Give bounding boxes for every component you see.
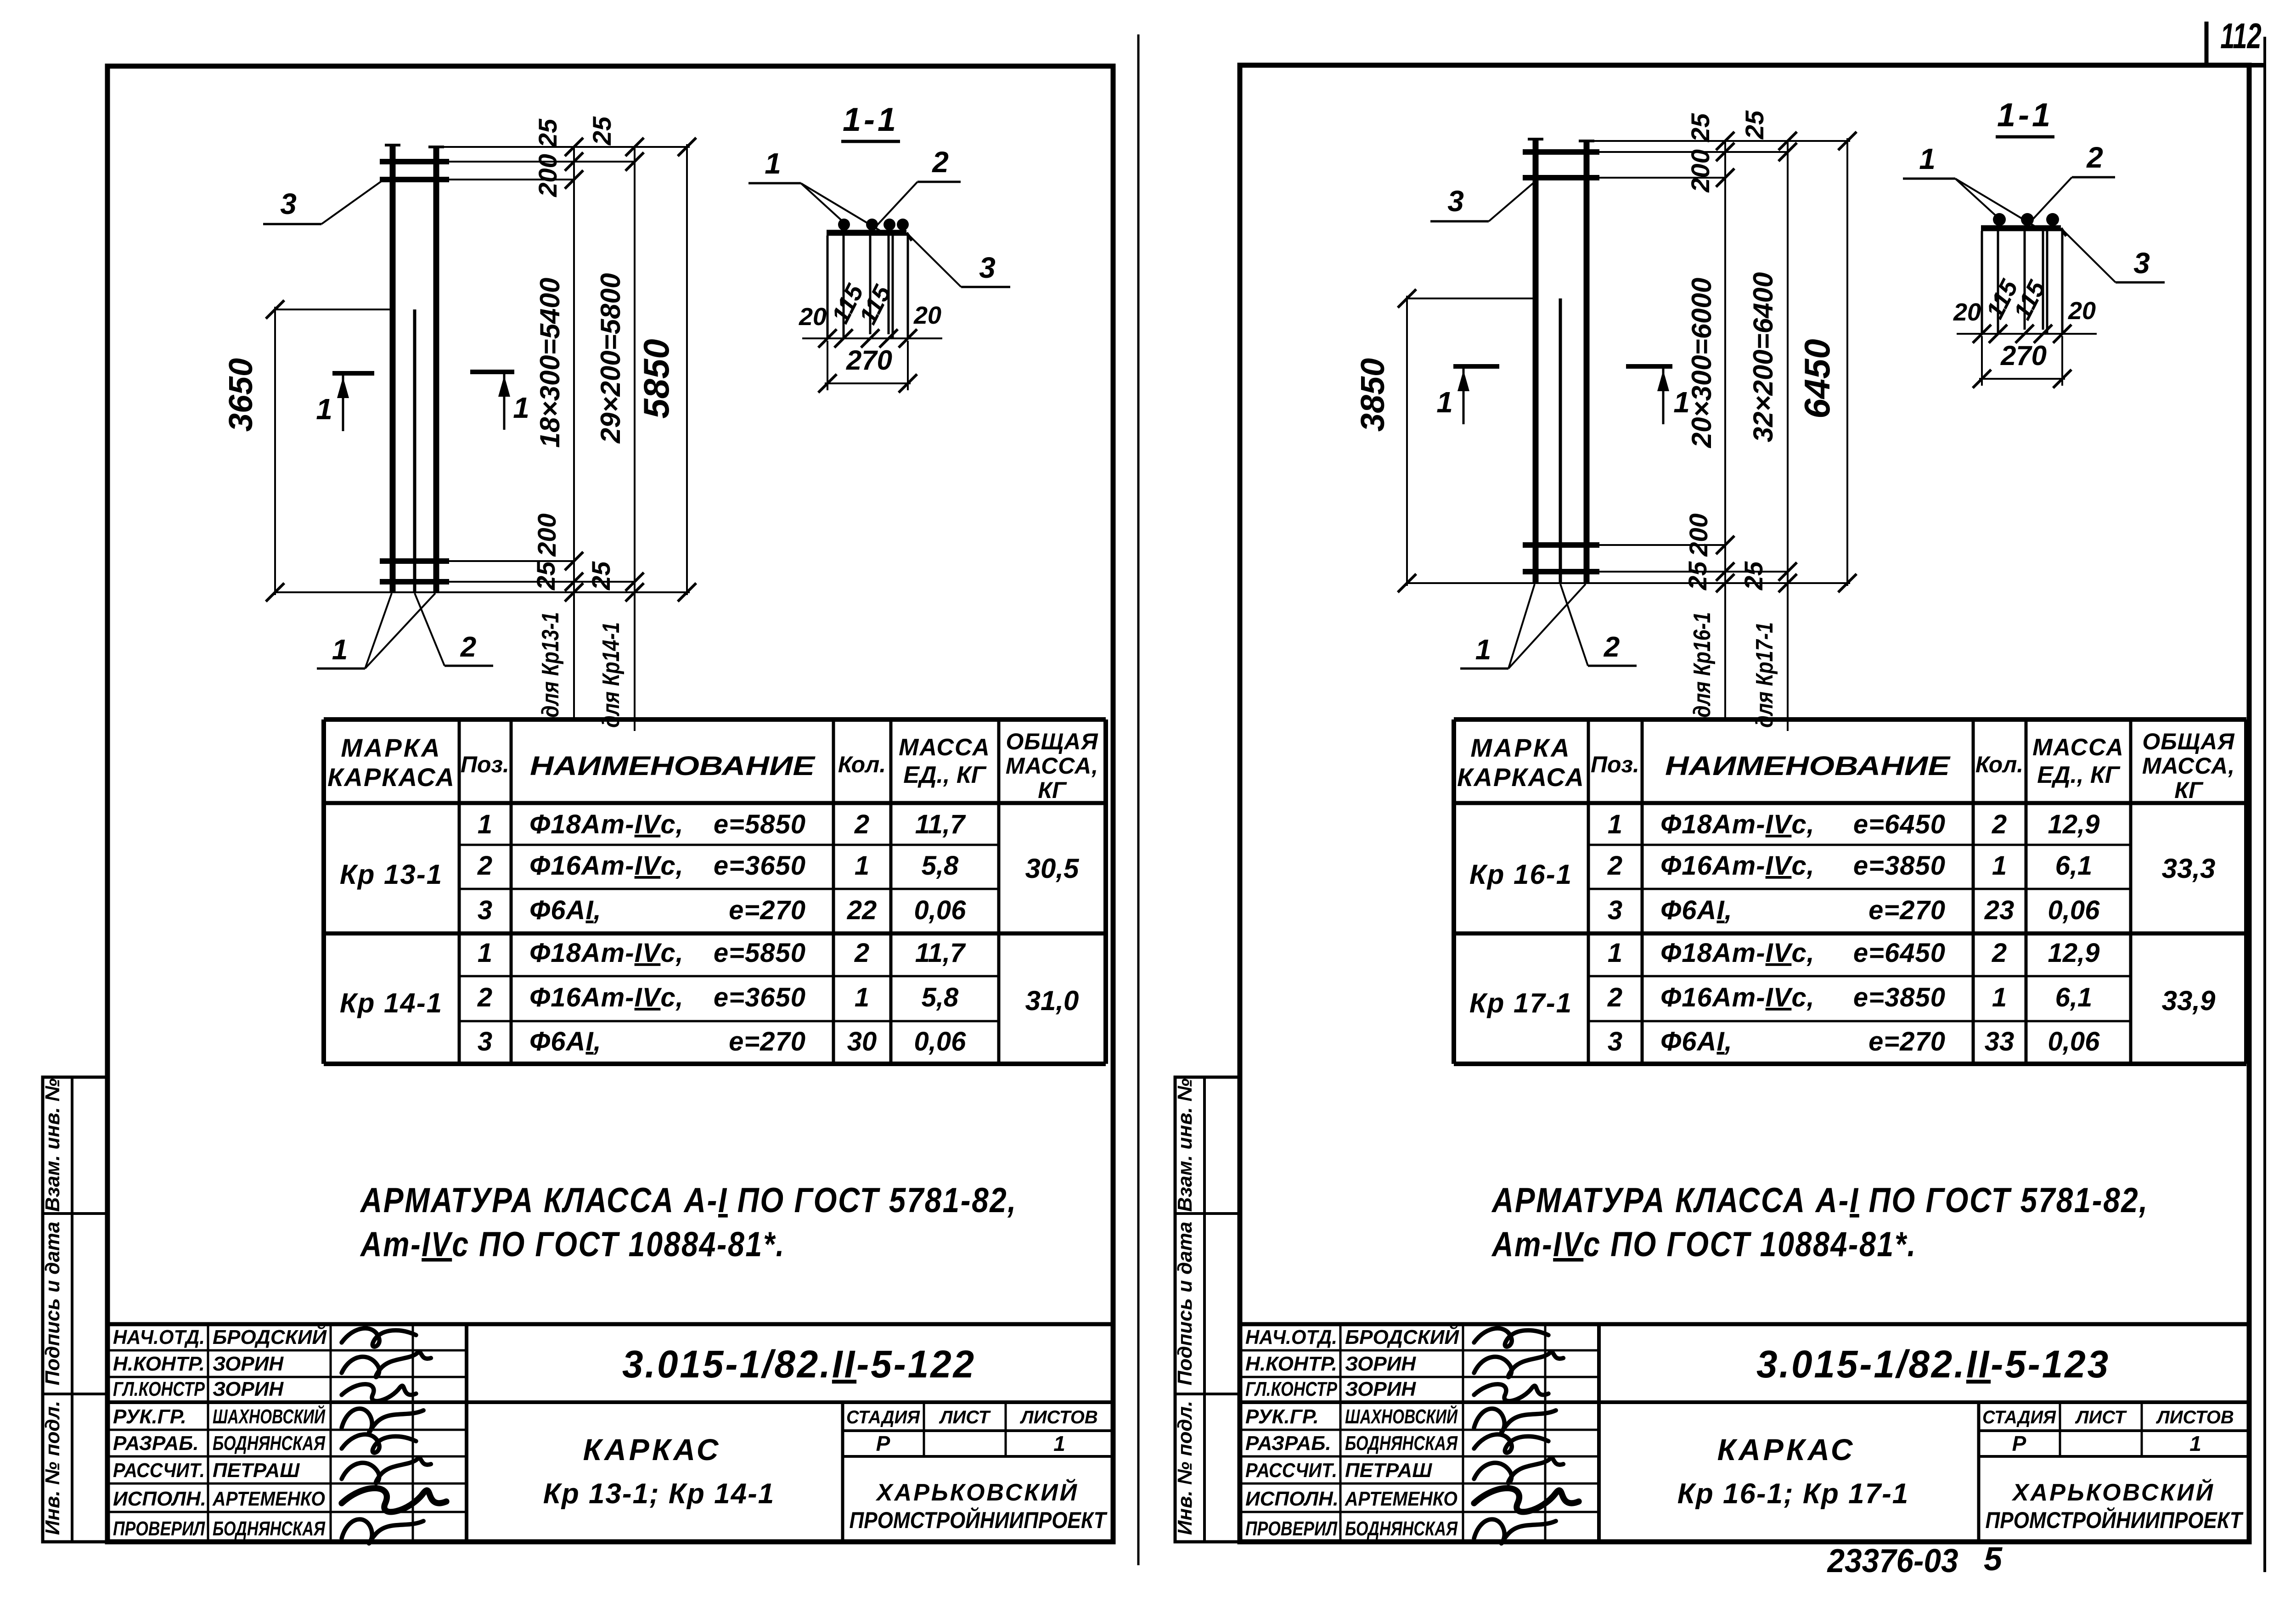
svg-text:20×300=6000: 20×300=6000 xyxy=(1686,278,1717,448)
svg-text:Инв. № подл.: Инв. № подл. xyxy=(41,1401,64,1535)
svg-text:ПЕТРАШ: ПЕТРАШ xyxy=(213,1459,300,1482)
svg-text:ЛИСТОВ: ЛИСТОВ xyxy=(2155,1407,2234,1427)
svg-text:25: 25 xyxy=(1740,110,1769,140)
svg-text:Взам. инв. №: Взам. инв. № xyxy=(1174,1079,1196,1212)
svg-text:2: 2 xyxy=(2086,141,2103,174)
svg-text:e=270: e=270 xyxy=(729,1027,806,1056)
svg-text:Ф18Ат-ІVс,: Ф18Ат-ІVс, xyxy=(529,938,684,968)
svg-text:1: 1 xyxy=(332,634,348,666)
svg-text:1: 1 xyxy=(765,147,781,180)
svg-text:2: 2 xyxy=(1604,631,1620,663)
svg-text:1: 1 xyxy=(855,851,869,881)
svg-text:23376-03: 23376-03 xyxy=(1827,1543,1958,1579)
svg-text:Ф16Ат-ІVс,: Ф16Ат-ІVс, xyxy=(1660,983,1815,1012)
svg-text:ХАРЬКОВСКИЙ: ХАРЬКОВСКИЙ xyxy=(875,1478,1079,1506)
svg-text:25: 25 xyxy=(533,118,562,148)
svg-text:200: 200 xyxy=(532,513,561,556)
svg-text:2: 2 xyxy=(477,983,492,1012)
svg-text:НАИМЕНОВАНИЕ: НАИМЕНОВАНИЕ xyxy=(530,751,816,781)
svg-text:1: 1 xyxy=(1436,386,1453,419)
svg-text:БОДНЯНСКАЯ: БОДНЯНСКАЯ xyxy=(1345,1432,1458,1455)
svg-text:БРОДСКИЙ: БРОДСКИЙ xyxy=(1345,1325,1459,1349)
svg-text:ШАХНОВСКИЙ: ШАХНОВСКИЙ xyxy=(213,1405,326,1428)
svg-text:Поз.: Поз. xyxy=(461,752,509,777)
svg-text:Кр 17-1: Кр 17-1 xyxy=(1469,988,1572,1018)
svg-text:3: 3 xyxy=(1608,895,1622,925)
svg-text:1: 1 xyxy=(478,938,492,968)
svg-text:200: 200 xyxy=(1686,149,1715,192)
svg-text:3: 3 xyxy=(478,1027,492,1056)
svg-text:для Кр13-1: для Кр13-1 xyxy=(537,612,564,718)
svg-text:МАРКА: МАРКА xyxy=(341,733,441,762)
svg-text:6450: 6450 xyxy=(1797,339,1837,419)
svg-text:ЕД., КГ: ЕД., КГ xyxy=(903,762,987,788)
svg-text:e=3850: e=3850 xyxy=(1853,983,1946,1012)
svg-text:Р: Р xyxy=(2012,1432,2026,1455)
svg-text:18×300=5400: 18×300=5400 xyxy=(535,278,565,448)
svg-text:1: 1 xyxy=(1992,851,2007,881)
svg-text:3: 3 xyxy=(280,187,297,220)
svg-text:Взам. инв. №: Взам. инв. № xyxy=(41,1079,64,1212)
svg-text:12,9: 12,9 xyxy=(2048,809,2100,839)
svg-text:ЗОРИН: ЗОРИН xyxy=(1345,1353,1416,1375)
svg-text:e=3850: e=3850 xyxy=(1853,851,1946,881)
svg-text:25: 25 xyxy=(1683,561,1712,590)
svg-text:3: 3 xyxy=(979,251,996,284)
svg-text:Н.КОНТР.: Н.КОНТР. xyxy=(113,1353,205,1375)
svg-text:Кр 16-1: Кр 16-1 xyxy=(1469,859,1572,890)
svg-text:2: 2 xyxy=(1607,983,1622,1012)
svg-text:РАССЧИТ.: РАССЧИТ. xyxy=(1245,1459,1337,1482)
svg-text:e=5850: e=5850 xyxy=(714,809,806,839)
svg-text:1: 1 xyxy=(1992,983,2007,1012)
svg-text:Ф18Ат-ІVс,: Ф18Ат-ІVс, xyxy=(529,809,684,839)
svg-text:ХАРЬКОВСКИЙ: ХАРЬКОВСКИЙ xyxy=(2011,1478,2215,1506)
svg-text:АРТЕМЕНКО: АРТЕМЕНКО xyxy=(1345,1488,1458,1510)
svg-text:3.015-1/82.ІІ-5-123: 3.015-1/82.ІІ-5-123 xyxy=(1756,1343,2110,1386)
svg-text:1-1: 1-1 xyxy=(1997,97,2053,134)
svg-text:1: 1 xyxy=(1475,634,1491,666)
svg-text:НАЧ.ОТД.: НАЧ.ОТД. xyxy=(1245,1326,1337,1349)
svg-text:ПРОВЕРИЛ: ПРОВЕРИЛ xyxy=(1245,1517,1338,1540)
svg-text:33: 33 xyxy=(1985,1027,2015,1056)
svg-text:0,06: 0,06 xyxy=(914,1027,967,1056)
svg-text:0,06: 0,06 xyxy=(2048,1027,2100,1056)
svg-text:22: 22 xyxy=(847,895,877,925)
svg-text:32×200=6400: 32×200=6400 xyxy=(1748,272,1778,442)
svg-text:ЛИСТ: ЛИСТ xyxy=(939,1407,991,1427)
svg-text:ИСПОЛН.: ИСПОЛН. xyxy=(113,1488,206,1510)
svg-text:АРТЕМЕНКО: АРТЕМЕНКО xyxy=(212,1488,325,1510)
svg-text:25: 25 xyxy=(587,116,616,146)
svg-text:e=6450: e=6450 xyxy=(1853,938,1946,968)
svg-text:РУК.ГР.: РУК.ГР. xyxy=(1245,1405,1319,1428)
svg-text:БОДНЯНСКАЯ: БОДНЯНСКАЯ xyxy=(213,1432,326,1455)
svg-text:Ат-ІVс ПО ГОСТ 10884-81*.: Ат-ІVс ПО ГОСТ 10884-81*. xyxy=(1491,1225,1917,1264)
svg-text:1: 1 xyxy=(1608,809,1622,839)
svg-text:1: 1 xyxy=(1919,142,1936,175)
svg-text:31,0: 31,0 xyxy=(1025,985,1079,1016)
svg-text:3.015-1/82.ІІ-5-122: 3.015-1/82.ІІ-5-122 xyxy=(622,1343,976,1386)
svg-text:3: 3 xyxy=(1608,1027,1622,1056)
svg-text:Ф16Ат-ІVс,: Ф16Ат-ІVс, xyxy=(529,851,684,881)
svg-text:e=6450: e=6450 xyxy=(1853,809,1946,839)
svg-text:2: 2 xyxy=(854,938,869,968)
svg-text:Инв. № подл.: Инв. № подл. xyxy=(1174,1401,1196,1535)
svg-text:1: 1 xyxy=(2189,1432,2201,1455)
svg-text:АРМАТУРА КЛАССА А-І ПО ГОС: АРМАТУРА КЛАССА А-І ПО ГОСТ 5781-82, xyxy=(1491,1181,2149,1220)
svg-text:25: 25 xyxy=(1686,113,1715,142)
svg-text:200: 200 xyxy=(1684,513,1713,556)
svg-text:Ф16Ат-ІVс,: Ф16Ат-ІVс, xyxy=(1660,851,1815,881)
svg-text:20: 20 xyxy=(2068,297,2096,325)
svg-text:НАЧ.ОТД.: НАЧ.ОТД. xyxy=(113,1326,205,1349)
svg-text:ЕД., КГ: ЕД., КГ xyxy=(2037,762,2121,788)
svg-text:2: 2 xyxy=(1992,938,2007,968)
svg-text:e=3650: e=3650 xyxy=(714,983,806,1012)
svg-text:3650: 3650 xyxy=(223,358,259,432)
svg-text:29×200=5800: 29×200=5800 xyxy=(595,273,626,444)
svg-text:ИСПОЛН.: ИСПОЛН. xyxy=(1245,1488,1339,1510)
svg-text:1: 1 xyxy=(855,983,869,1012)
svg-text:КГ: КГ xyxy=(2174,777,2204,803)
svg-text:Ф6АІ,: Ф6АІ, xyxy=(1660,895,1733,925)
svg-text:АРМАТУРА КЛАССА А-І ПО ГОС: АРМАТУРА КЛАССА А-І ПО ГОСТ 5781-82, xyxy=(360,1181,1017,1220)
svg-text:5,8: 5,8 xyxy=(922,983,959,1012)
svg-text:Ф6АІ,: Ф6АІ, xyxy=(529,1027,602,1056)
svg-text:Ф16Ат-ІVс,: Ф16Ат-ІVс, xyxy=(529,983,684,1012)
svg-text:11,7: 11,7 xyxy=(915,809,966,839)
svg-text:6,1: 6,1 xyxy=(2055,983,2093,1012)
svg-text:Ф18Ат-ІVс,: Ф18Ат-ІVс, xyxy=(1660,938,1815,968)
svg-text:КГ: КГ xyxy=(1038,777,1067,803)
svg-text:e=270: e=270 xyxy=(1868,895,1946,925)
svg-text:РАССЧИТ.: РАССЧИТ. xyxy=(113,1459,205,1482)
svg-text:Кр 13-1; Кр 14-1: Кр 13-1; Кр 14-1 xyxy=(543,1478,775,1510)
svg-text:112: 112 xyxy=(2220,16,2262,56)
svg-text:1: 1 xyxy=(1608,938,1622,968)
svg-text:Кол.: Кол. xyxy=(838,752,886,777)
svg-text:20: 20 xyxy=(913,302,941,329)
svg-text:270: 270 xyxy=(2000,340,2047,371)
svg-text:СТАДИЯ: СТАДИЯ xyxy=(846,1407,920,1427)
svg-text:2: 2 xyxy=(477,851,492,881)
svg-text:ГЛ.КОНСТР: ГЛ.КОНСТР xyxy=(113,1378,205,1400)
svg-text:12,9: 12,9 xyxy=(2048,938,2100,968)
svg-text:5,8: 5,8 xyxy=(922,851,959,881)
svg-text:3: 3 xyxy=(1447,185,1464,218)
svg-text:Ф18Ат-ІVс,: Ф18Ат-ІVс, xyxy=(1660,809,1815,839)
svg-text:3850: 3850 xyxy=(1355,358,1391,432)
svg-text:6,1: 6,1 xyxy=(2055,851,2093,881)
svg-text:2: 2 xyxy=(854,809,869,839)
svg-text:1: 1 xyxy=(1053,1432,1065,1455)
svg-text:23: 23 xyxy=(1984,895,2015,925)
svg-text:1: 1 xyxy=(478,809,492,839)
svg-text:2: 2 xyxy=(932,146,949,179)
svg-text:ЗОРИН: ЗОРИН xyxy=(213,1378,284,1400)
svg-text:МАРКА: МАРКА xyxy=(1470,733,1571,762)
svg-text:Кр 16-1; Кр 17-1: Кр 16-1; Кр 17-1 xyxy=(1677,1478,1909,1510)
svg-text:ПЕТРАШ: ПЕТРАШ xyxy=(1345,1459,1432,1482)
svg-text:Ф6АІ,: Ф6АІ, xyxy=(1660,1027,1733,1056)
svg-text:25: 25 xyxy=(586,561,615,590)
svg-text:КАРКАС: КАРКАС xyxy=(1717,1433,1856,1467)
svg-text:Поз.: Поз. xyxy=(1591,752,1639,777)
svg-text:270: 270 xyxy=(846,345,892,376)
svg-text:РАЗРАБ.: РАЗРАБ. xyxy=(1245,1432,1331,1455)
svg-text:РАЗРАБ.: РАЗРАБ. xyxy=(113,1432,199,1455)
svg-text:e=270: e=270 xyxy=(729,895,806,925)
svg-text:для Кр16-1: для Кр16-1 xyxy=(1689,612,1716,718)
svg-text:Подпись и дата: Подпись и дата xyxy=(41,1222,64,1386)
svg-text:для Кр17-1: для Кр17-1 xyxy=(1751,622,1778,728)
svg-text:25: 25 xyxy=(1739,561,1768,590)
svg-text:для Кр14-1: для Кр14-1 xyxy=(598,622,625,728)
svg-text:Р: Р xyxy=(876,1432,890,1455)
svg-text:ЛИСТОВ: ЛИСТОВ xyxy=(1019,1407,1098,1427)
svg-text:33,3: 33,3 xyxy=(2162,853,2216,884)
svg-text:БРОДСКИЙ: БРОДСКИЙ xyxy=(213,1325,327,1349)
svg-text:Подпись и дата: Подпись и дата xyxy=(1174,1222,1196,1386)
svg-text:3: 3 xyxy=(478,895,492,925)
svg-text:Ат-ІVс ПО ГОСТ 10884-81*.: Ат-ІVс ПО ГОСТ 10884-81*. xyxy=(360,1225,785,1264)
svg-text:КАРКАСА: КАРКАСА xyxy=(1457,763,1585,792)
svg-text:2: 2 xyxy=(460,631,476,663)
svg-text:25: 25 xyxy=(531,561,560,590)
svg-text:МАССА: МАССА xyxy=(2032,734,2124,761)
svg-text:ПРОМСТРОЙНИИПРОЕКТ: ПРОМСТРОЙНИИПРОЕКТ xyxy=(1986,1507,2244,1533)
svg-text:11,7: 11,7 xyxy=(915,938,966,968)
svg-text:0,06: 0,06 xyxy=(914,895,967,925)
svg-text:Ф6АІ,: Ф6АІ, xyxy=(529,895,602,925)
svg-text:30,5: 30,5 xyxy=(1025,853,1080,884)
svg-text:СТАДИЯ: СТАДИЯ xyxy=(1982,1407,2056,1427)
svg-text:0,06: 0,06 xyxy=(2048,895,2100,925)
svg-text:5: 5 xyxy=(1984,1541,2003,1578)
svg-text:200: 200 xyxy=(533,154,562,197)
svg-text:НАИМЕНОВАНИЕ: НАИМЕНОВАНИЕ xyxy=(1665,751,1951,781)
svg-text:БОДНЯНСКАЯ: БОДНЯНСКАЯ xyxy=(213,1517,326,1540)
svg-text:ЗОРИН: ЗОРИН xyxy=(213,1353,284,1375)
svg-text:Кр 13-1: Кр 13-1 xyxy=(340,859,443,890)
svg-text:30: 30 xyxy=(847,1027,877,1056)
svg-text:33,9: 33,9 xyxy=(2162,985,2216,1016)
svg-text:20: 20 xyxy=(799,303,827,331)
svg-text:Кол.: Кол. xyxy=(1975,752,2023,777)
svg-text:РУК.ГР.: РУК.ГР. xyxy=(113,1405,186,1428)
svg-text:e=5850: e=5850 xyxy=(714,938,806,968)
svg-text:ОБЩАЯ: ОБЩАЯ xyxy=(2142,729,2235,754)
svg-text:МАССА: МАССА xyxy=(899,734,990,761)
svg-text:МАССА,: МАССА, xyxy=(1006,753,1098,779)
svg-text:ГЛ.КОНСТР: ГЛ.КОНСТР xyxy=(1245,1378,1338,1400)
svg-text:ЗОРИН: ЗОРИН xyxy=(1345,1378,1416,1400)
svg-text:Кр 14-1: Кр 14-1 xyxy=(340,988,443,1018)
svg-text:ПРОВЕРИЛ: ПРОВЕРИЛ xyxy=(113,1517,205,1540)
svg-text:КАРКАС: КАРКАС xyxy=(583,1433,721,1467)
svg-text:БОДНЯНСКАЯ: БОДНЯНСКАЯ xyxy=(1345,1517,1458,1540)
svg-text:5850: 5850 xyxy=(636,339,676,419)
svg-text:ПРОМСТРОЙНИИПРОЕКТ: ПРОМСТРОЙНИИПРОЕКТ xyxy=(850,1507,1108,1533)
svg-text:КАРКАСА: КАРКАСА xyxy=(327,763,455,792)
svg-text:1: 1 xyxy=(316,393,332,426)
svg-text:2: 2 xyxy=(1607,851,1622,881)
svg-text:МАССА,: МАССА, xyxy=(2142,753,2235,779)
svg-text:e=3650: e=3650 xyxy=(714,851,806,881)
svg-text:1-1: 1-1 xyxy=(843,101,899,138)
svg-text:1: 1 xyxy=(1673,386,1690,419)
svg-text:20: 20 xyxy=(1953,298,1981,326)
svg-text:ОБЩАЯ: ОБЩАЯ xyxy=(1006,729,1098,754)
svg-text:e=270: e=270 xyxy=(1868,1027,1946,1056)
svg-text:3: 3 xyxy=(2133,247,2150,280)
svg-text:ЛИСТ: ЛИСТ xyxy=(2075,1407,2127,1427)
svg-text:1: 1 xyxy=(513,391,529,424)
svg-text:Н.КОНТР.: Н.КОНТР. xyxy=(1245,1353,1337,1375)
svg-text:2: 2 xyxy=(1992,809,2007,839)
svg-text:ШАХНОВСКИЙ: ШАХНОВСКИЙ xyxy=(1345,1405,1458,1428)
